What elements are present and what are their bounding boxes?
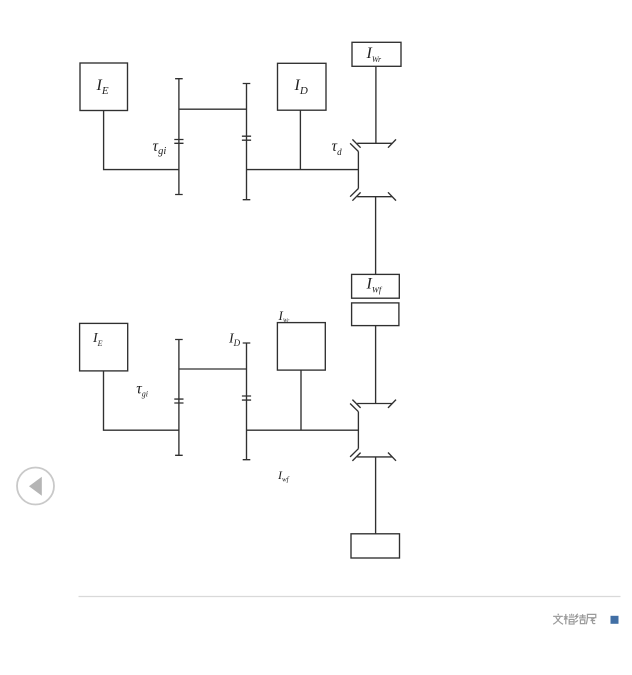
svg-text:IWr: IWr [278, 308, 291, 324]
svg-text:IE: IE [96, 77, 109, 97]
svg-text:IE: IE [92, 331, 103, 348]
svg-text:IWf: IWf [366, 276, 383, 295]
svg-text:ID: ID [228, 331, 241, 348]
svg-text:ID: ID [294, 77, 308, 97]
svg-text:IWr: IWr [366, 45, 383, 64]
svg-text:τgi: τgi [153, 138, 167, 157]
svg-text:Iwf: Iwf [277, 468, 290, 484]
svg-text:τd: τd [332, 138, 343, 157]
svg-text:τgi: τgi [136, 381, 148, 399]
